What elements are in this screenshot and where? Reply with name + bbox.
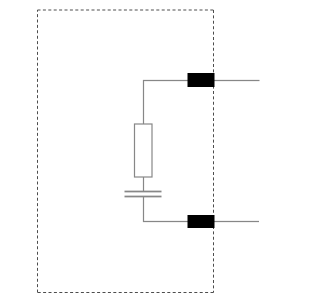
wire (capacitor to bottom terminal) xyxy=(144,197,260,222)
enclosure (dashed module boundary) right edge xyxy=(213,10,215,293)
terminal block (bottom, filled) xyxy=(188,215,215,228)
resistor R1 xyxy=(135,124,153,177)
enclosure (dashed module boundary) left edge xyxy=(37,10,39,293)
wire (top: terminal to resistor top) xyxy=(144,81,260,125)
wire (resistor bottom to capacitor) xyxy=(143,177,145,191)
enclosure (dashed module boundary) top edge xyxy=(38,9,214,11)
terminal block (top, filled) xyxy=(188,73,215,87)
enclosure (dashed module boundary) bottom edge xyxy=(38,292,214,294)
capacitor C1 bottom plate xyxy=(125,196,162,198)
capacitor C1 top plate xyxy=(125,191,162,193)
